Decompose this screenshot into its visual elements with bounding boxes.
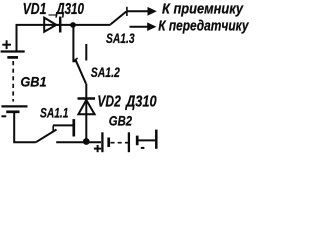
wire VD2 branch xyxy=(85,84,87,142)
battery GB2 cell1 short plate xyxy=(107,138,110,148)
diode VD1 xyxy=(44,17,60,33)
switch SA1.2 xyxy=(74,44,86,84)
wire top rail xyxy=(17,25,111,52)
battery GB1 cell1 short plate xyxy=(7,56,18,59)
arrow to receiver xyxy=(148,7,157,16)
arrow to transmitter xyxy=(147,22,156,31)
switch SA1.1 xyxy=(36,119,74,142)
wire GB1 to rail xyxy=(14,112,36,142)
battery GB2 cell1 long plate xyxy=(101,132,103,152)
battery GB1 cell2 short plate xyxy=(6,110,19,113)
diode VD2 xyxy=(78,99,96,115)
svg-text:К приемнику: К приемнику xyxy=(162,1,244,17)
battery GB2 cell2 short plate xyxy=(136,136,139,146)
terminal end bar xyxy=(155,130,158,149)
svg-text:SA1.3: SA1.3 xyxy=(106,31,135,47)
battery GB1 minus xyxy=(1,115,6,117)
wire SA1.2 feed xyxy=(73,25,76,61)
battery GB1 cell1 long plate xyxy=(1,50,25,52)
svg-text:Д310: Д310 xyxy=(55,0,84,17)
battery GB1 dashed link xyxy=(12,61,14,102)
svg-text:GB1: GB1 xyxy=(20,74,46,90)
wire GB2 to end xyxy=(138,139,155,141)
node A junction dot top xyxy=(70,22,76,28)
battery GB1 cell2 long plate xyxy=(1,105,27,107)
svg-text:К передатчику: К передатчику xyxy=(158,17,249,33)
svg-text:GB2: GB2 xyxy=(109,112,132,128)
battery GB2 minus xyxy=(141,147,145,149)
wire bottom rail xyxy=(56,141,101,143)
switch SA1.3 xyxy=(111,7,149,27)
battery GB2 cell2 long plate xyxy=(128,132,130,152)
battery GB2 plus xyxy=(94,145,101,152)
battery GB1 plus xyxy=(2,40,11,49)
svg-text:VD2: VD2 xyxy=(97,92,120,110)
wire underscore artifact xyxy=(49,14,57,16)
svg-text:SA1.1: SA1.1 xyxy=(40,105,69,121)
svg-text:Д310: Д310 xyxy=(124,93,156,111)
battery GB2 dashed link xyxy=(111,142,129,144)
node B junction dot bottom xyxy=(83,138,90,145)
svg-text:VD1: VD1 xyxy=(23,0,47,18)
svg-text:SA1.2: SA1.2 xyxy=(91,64,120,80)
